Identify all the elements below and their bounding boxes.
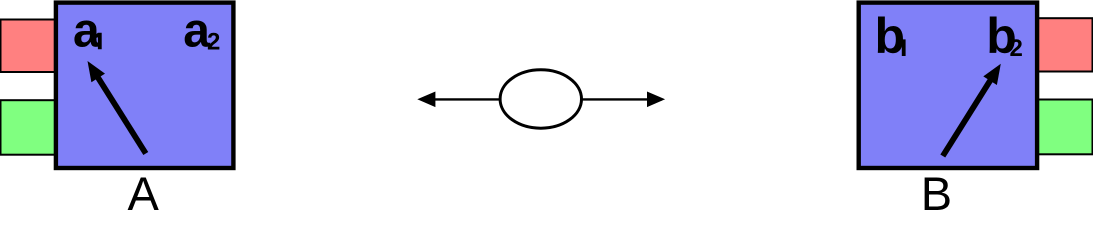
double-headed arrow line: [421, 98, 662, 100]
box B: [859, 3, 1037, 168]
svg-text:b: b: [875, 8, 906, 64]
box A: [56, 3, 234, 168]
left arrowhead: [417, 92, 435, 108]
arrow inside box A pointing to a1: [95, 73, 146, 154]
ellipse channel node: [500, 70, 581, 128]
green tab left of box A: [1, 100, 58, 155]
svg-text:2: 2: [207, 28, 220, 55]
green tab right of box B: [1031, 100, 1093, 155]
svg-text:B: B: [921, 167, 952, 211]
arrow inside box B pointing to b2: [943, 76, 994, 156]
svg-text:A: A: [128, 167, 160, 211]
svg-text:2: 2: [1010, 35, 1023, 62]
right arrowhead: [647, 92, 665, 108]
svg-text:a: a: [73, 4, 100, 57]
red tab right of box B: [1031, 18, 1093, 71]
red tab left of box A: [1, 20, 58, 73]
